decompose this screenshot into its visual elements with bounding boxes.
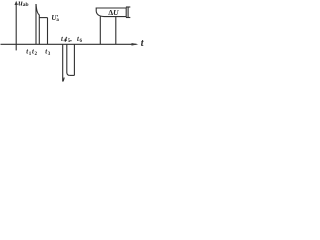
wire negative pulse falling edge t5 bbox=[67, 44, 70, 75]
svg-text:ΔU: ΔU bbox=[108, 8, 119, 17]
dimension arrow for ΔU bbox=[126, 6, 130, 8]
wire pulse1 exponential decay top bbox=[36, 4, 39, 15]
comma after t5 bbox=[70, 40, 71, 41]
wire negative spike edge t4 bbox=[63, 44, 64, 81]
wire pulse1 rising edge t1 bbox=[35, 4, 37, 44]
wire callout leader right bbox=[115, 17, 117, 45]
y-axis bbox=[15, 4, 17, 51]
svg-text:ab: ab bbox=[23, 2, 29, 8]
wire negative pulse flat bottom bbox=[70, 74, 75, 76]
wire pulse2 falling edge t3 bbox=[47, 18, 49, 45]
wire pulse1 falling edge t2 bbox=[38, 15, 40, 45]
x-axis arrowhead bbox=[132, 43, 139, 46]
wire callout leader left bbox=[99, 16, 101, 44]
wire pulse2 flat top bbox=[39, 17, 47, 19]
y-axis arrowhead bbox=[15, 1, 18, 5]
wire negative pulse rising edge t6 bbox=[73, 44, 75, 75]
x-axis bbox=[1, 43, 137, 45]
callout balloon outline bbox=[96, 8, 126, 17]
